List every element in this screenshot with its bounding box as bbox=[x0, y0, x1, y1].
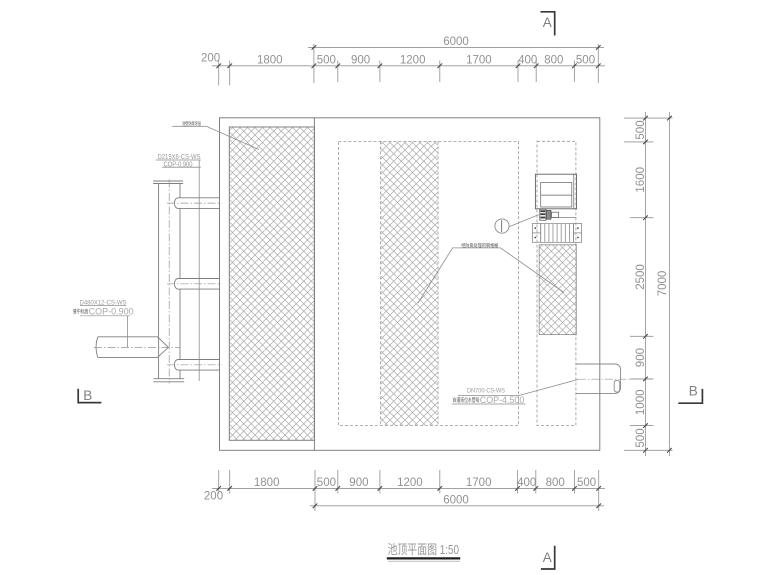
svg-text:1600: 1600 bbox=[635, 167, 647, 193]
svg-text:1800: 1800 bbox=[254, 477, 280, 489]
svg-text:800: 800 bbox=[544, 55, 563, 67]
svg-text:200: 200 bbox=[201, 53, 220, 65]
svg-text:1800: 1800 bbox=[257, 55, 283, 67]
svg-text:400: 400 bbox=[518, 55, 537, 67]
svg-text:6000: 6000 bbox=[443, 495, 469, 507]
svg-text:500: 500 bbox=[576, 55, 595, 67]
svg-text:2500: 2500 bbox=[635, 264, 647, 290]
svg-text:800: 800 bbox=[546, 477, 565, 489]
svg-text:7000: 7000 bbox=[657, 271, 669, 297]
svg-text:A: A bbox=[543, 550, 552, 565]
svg-text:自灌液位水管吸: 自灌液位水管吸 bbox=[453, 396, 480, 404]
svg-text:DN700-CS-WS: DN700-CS-WS bbox=[467, 387, 506, 394]
svg-text:1000: 1000 bbox=[635, 390, 647, 416]
svg-text:管中标高: 管中标高 bbox=[73, 308, 89, 316]
svg-text:900: 900 bbox=[635, 348, 647, 367]
svg-text:200: 200 bbox=[204, 490, 223, 502]
svg-text:1200: 1200 bbox=[400, 55, 426, 67]
svg-text:1200: 1200 bbox=[397, 477, 423, 489]
svg-text:500: 500 bbox=[317, 477, 336, 489]
svg-text:900: 900 bbox=[349, 477, 368, 489]
svg-text:6000: 6000 bbox=[443, 36, 469, 48]
svg-text:400: 400 bbox=[517, 477, 536, 489]
svg-text:500: 500 bbox=[635, 428, 647, 447]
svg-text:B: B bbox=[689, 384, 698, 399]
svg-text:500: 500 bbox=[635, 120, 647, 139]
svg-text:900: 900 bbox=[351, 55, 370, 67]
svg-text:1700: 1700 bbox=[466, 55, 492, 67]
svg-text:500: 500 bbox=[317, 55, 336, 67]
svg-text:池顶平面图 1:50: 池顶平面图 1:50 bbox=[388, 542, 460, 557]
svg-text:A: A bbox=[543, 15, 552, 30]
svg-text:1700: 1700 bbox=[466, 477, 492, 489]
svg-text:500: 500 bbox=[577, 477, 596, 489]
svg-text:B: B bbox=[83, 388, 92, 403]
